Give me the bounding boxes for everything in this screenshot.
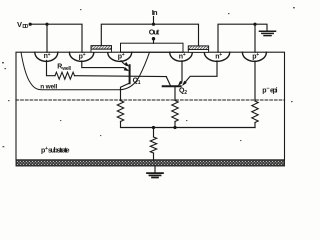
svg-text:+: +: [83, 52, 86, 58]
ground (top right): [260, 31, 276, 35]
Q1 base bar: [129, 65, 131, 83]
p+ bump (PMOS source, VDD): [69, 52, 93, 61]
In terminal stub: [153, 17, 155, 25]
gate G2 (hatched): [188, 46, 208, 50]
svg-text:+: +: [256, 52, 259, 58]
resistor Rwell: [47, 61, 56, 76]
svg-text:n well: n well: [40, 83, 57, 90]
Q1 collector: [121, 83, 130, 101]
resistor R1 (well/collector resistance): [117, 101, 123, 122]
n well boundary: [21, 52, 150, 90]
node Out terminal dot: [152, 37, 155, 40]
p+ bump (PMOS drain, Out): [108, 52, 132, 61]
svg-text:+: +: [183, 52, 186, 58]
ground (bottom, substrate): [154, 166, 156, 173]
silicon box outline: [16, 52, 285, 160]
node R2/bus junction: [173, 126, 176, 129]
node GND/p+ junction: [253, 23, 256, 26]
Q2 base lead down: [174, 86, 176, 100]
svg-text:+: +: [219, 52, 222, 58]
svg-text:DD: DD: [22, 24, 28, 30]
epi / substrate dashed boundary: [16, 99, 285, 101]
gate G1 (hatched): [91, 46, 112, 50]
Q2 collector from Rwell wire: [166, 77, 170, 86]
svg-text:2: 2: [184, 90, 187, 96]
svg-text:+: +: [122, 52, 125, 58]
Q2 base bar: [163, 85, 181, 87]
resistor R3 (substrate tap resistance): [254, 61, 256, 101]
node In junction: [152, 23, 155, 26]
wire Rwell to Q1 base and Q2 collector: [75, 75, 167, 78]
wire R1 to substrate bus: [121, 122, 256, 128]
n+ bump (NMOS drain, Out): [170, 52, 193, 61]
svg-text:Out: Out: [149, 27, 160, 36]
Q1 emitter from p+ drain: [121, 61, 126, 66]
Out terminal stub: [153, 39, 155, 44]
scan specks: [2, 7, 295, 147]
In wire: [101, 24, 198, 46]
node R4/bus junction: [152, 126, 155, 129]
Q2 emitter from n+ source: [185, 61, 217, 82]
Q1 emitter from p+ source: [82, 61, 125, 68]
GND rail wire: [218, 24, 267, 52]
wire VDD to n+ tap: [46, 24, 48, 52]
svg-text:substrate: substrate: [48, 148, 70, 155]
Out metal bar: [121, 43, 184, 52]
p+ bump (substrate tap, GND): [242, 52, 266, 61]
svg-text:V: V: [17, 20, 22, 29]
n+ bump (NMOS source, GND): [204, 52, 229, 61]
node VDD/n+ junction: [45, 23, 48, 26]
svg-text:epi: epi: [270, 87, 278, 94]
Q2 emitter from n+ drain: [181, 61, 182, 83]
VDD rail wire: [30, 24, 82, 52]
resistor R4 (vertical substrate resistance): [153, 128, 155, 138]
wire R2 to bus: [174, 122, 176, 128]
wire R3 to bus: [254, 123, 256, 128]
svg-text:In: In: [152, 8, 158, 17]
svg-text:well: well: [61, 66, 71, 72]
node VDD terminal dot: [29, 23, 32, 26]
n+ bump (n-well tap, VDD): [35, 52, 58, 61]
svg-text:+: +: [48, 52, 51, 58]
substrate bottom hatched strip: [16, 160, 285, 166]
svg-text:1: 1: [138, 80, 141, 86]
resistor R2 (substrate resistance under Q2): [172, 101, 178, 122]
wire GND to p+ tap: [254, 24, 256, 52]
